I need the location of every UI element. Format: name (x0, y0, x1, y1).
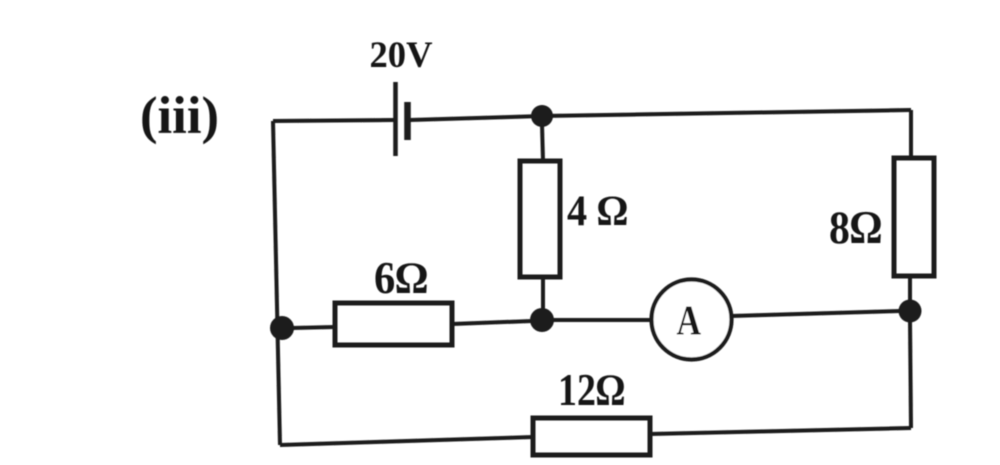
wire 4-ohm resistor top to top node (542, 124, 543, 161)
ammeter A (652, 280, 732, 360)
svg-text:A: A (677, 299, 702, 345)
svg-text:(iii): (iii) (140, 87, 219, 145)
node top junction dot (531, 105, 553, 127)
wire 12-ohm resistor to bottom-left corner (280, 437, 533, 445)
wire right vertical down to 8-ohm resistor (909, 110, 913, 158)
wire bottom-right corner to 12-ohm resistor (650, 428, 911, 434)
svg-text:8Ω: 8Ω (829, 202, 882, 254)
svg-text:4 Ω: 4 Ω (567, 188, 628, 235)
wire left node to 6-ohm resistor (292, 327, 335, 328)
battery B1 20V long plate (393, 82, 398, 156)
battery B1 20V short plate (404, 102, 411, 140)
wire middle node up to 4-ohm resistor (541, 277, 545, 310)
svg-text:6Ω: 6Ω (374, 253, 428, 303)
resistor 4 ohm (520, 161, 560, 277)
wire left vertical (273, 121, 280, 445)
node middle junction dot (530, 308, 554, 332)
wire ammeter to right node (731, 311, 900, 316)
wire top node to top-right corner (542, 110, 911, 116)
wire 8-ohm bottom to right node (908, 276, 912, 302)
wire top-left to battery (273, 120, 394, 121)
resistor 6 ohm (335, 303, 452, 345)
svg-text:12Ω: 12Ω (558, 365, 625, 415)
node left junction dot (270, 316, 294, 340)
wire 6-ohm resistor to middle node (452, 321, 532, 324)
resistor 12 ohm (533, 418, 650, 455)
wire battery to top node (410, 116, 542, 120)
svg-text:20V: 20V (370, 35, 433, 76)
wire middle node to ammeter (553, 318, 652, 322)
wire right node down to bottom-right corner (910, 320, 911, 428)
node right junction dot (899, 300, 922, 323)
resistor 8 ohm (894, 158, 934, 276)
